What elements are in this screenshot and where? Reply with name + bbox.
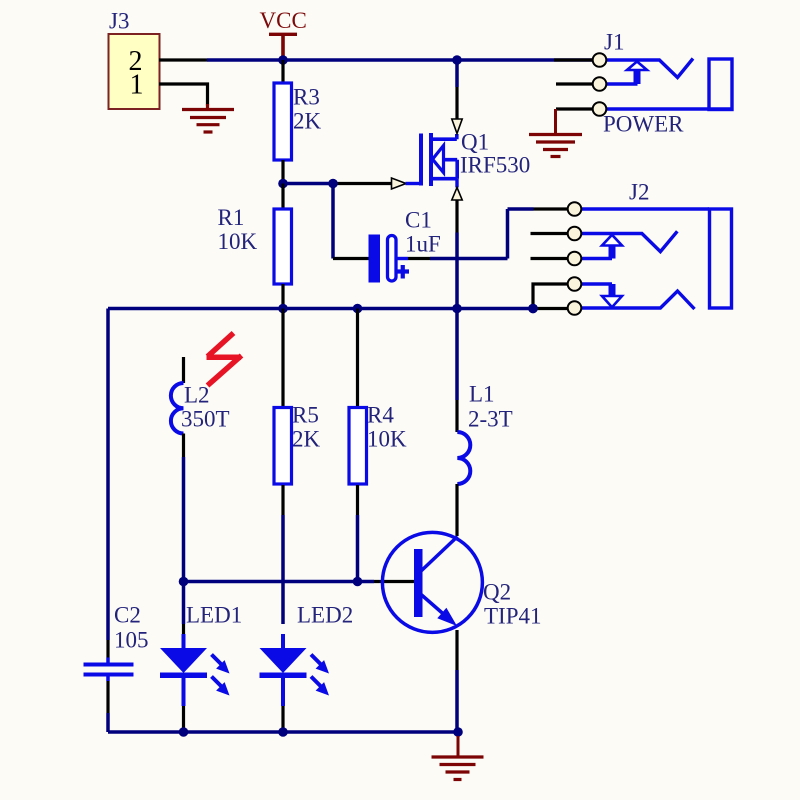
wire LED1 top lead <box>182 582 186 649</box>
wire R3 bottom lead <box>281 160 284 184</box>
label J3 designator <box>109 9 129 34</box>
junction mid rail at R4 <box>353 304 363 314</box>
pin J1 pin 3 <box>593 102 607 116</box>
label R5 value 2K <box>292 427 321 452</box>
svg-text:2K: 2K <box>292 427 321 452</box>
wire R1 top lead <box>281 184 284 210</box>
svg-text:POWER: POWER <box>603 112 684 137</box>
label L1 designator <box>469 382 495 407</box>
svg-text:2K: 2K <box>293 109 322 134</box>
wire base rail to Q2 <box>184 580 415 584</box>
wire Q1 drain vertical <box>455 60 459 119</box>
ground at J3 <box>182 104 234 132</box>
spark lightning symbol at L2 <box>207 333 242 386</box>
wire R5 top lead <box>281 309 284 408</box>
label C2 value 105 <box>114 628 149 653</box>
svg-text:105: 105 <box>114 628 149 653</box>
junction bottom rail at LED1 <box>179 727 189 737</box>
ground at bottom rail <box>432 736 484 780</box>
pin J2 pin 3 <box>568 252 582 266</box>
wire top rail VCC net <box>207 58 593 62</box>
svg-text:J1: J1 <box>604 30 624 55</box>
capacitor C1 polarized <box>369 235 410 283</box>
wire R4 bottom lead <box>356 485 359 582</box>
svg-text:1: 1 <box>130 70 144 101</box>
transistor Q1 MOSFET <box>421 133 457 188</box>
junction VCC rail at R3 top <box>278 55 288 65</box>
label R4 value 10K <box>367 427 407 452</box>
wire L1 to Q2 collector <box>455 484 458 536</box>
wire R5 bottom to LED2 <box>281 485 284 624</box>
label R1 designator <box>218 205 245 230</box>
label LED2 designator <box>297 603 353 628</box>
junction mid rail at R5 <box>278 304 288 314</box>
label J2 designator <box>629 180 649 205</box>
wire LED1 bottom lead <box>182 678 186 732</box>
svg-text:C2: C2 <box>114 603 141 628</box>
label LED1 designator <box>186 603 242 628</box>
svg-text:J3: J3 <box>109 9 129 34</box>
label L2 designator <box>184 383 210 408</box>
svg-text:VCC: VCC <box>260 8 307 33</box>
svg-text:R1: R1 <box>218 205 245 230</box>
resistor R5 <box>274 408 292 485</box>
wire J3 pin 1 to ground <box>159 84 208 106</box>
svg-text:L2: L2 <box>184 383 210 408</box>
wire C1 left lead <box>333 257 369 260</box>
label POWER net <box>603 112 684 137</box>
svg-text:R3: R3 <box>293 85 320 110</box>
diode LED2 <box>260 648 330 696</box>
connector J1 phone jack <box>554 59 732 110</box>
wire J3 pin 2 to VCC rail <box>159 58 207 61</box>
svg-text:TIP41: TIP41 <box>484 604 542 629</box>
pin arrow Q1 source <box>452 188 462 201</box>
resistor R3 <box>274 83 292 160</box>
svg-text:R4: R4 <box>367 403 394 428</box>
diode LED1 <box>160 648 230 696</box>
label VCC net <box>260 8 307 33</box>
junction J2 pin 4 corner on mid rail <box>528 304 538 314</box>
pin arrow Q1 drain <box>452 119 462 134</box>
pin J2 pin 2 <box>568 227 582 241</box>
label L1 value 2-3T <box>468 407 513 432</box>
svg-text:R5: R5 <box>292 403 319 428</box>
resistor R1 <box>274 209 292 284</box>
ground at J1 pin 3 <box>529 109 582 157</box>
pin J1 pin 1 <box>593 53 607 67</box>
wire Q2 emitter to ground rail <box>455 630 458 732</box>
label Q1 designator <box>461 130 489 155</box>
svg-text:C1: C1 <box>405 208 432 233</box>
pin number J3 pin 1 <box>130 70 144 101</box>
label R1 value 10K <box>218 229 258 254</box>
junction bottom rail at LED2 <box>278 727 288 737</box>
wire R3 top lead <box>281 60 284 83</box>
inductor L1 <box>457 309 470 485</box>
label C1 value 1uF <box>405 232 441 257</box>
svg-text:LED1: LED1 <box>186 603 242 628</box>
wire C1 to J2 pin 1 <box>396 209 534 259</box>
connector J3 <box>109 34 160 109</box>
svg-text:Q1: Q1 <box>461 130 489 155</box>
label C1 designator <box>405 208 432 233</box>
wire LED2 bottom lead <box>281 678 285 732</box>
label R3 value 2K <box>293 109 322 134</box>
wire R1 bottom lead <box>281 284 284 309</box>
svg-text:J2: J2 <box>629 180 649 205</box>
svg-text:10K: 10K <box>367 427 407 452</box>
pin J2 pin 1 <box>568 202 582 216</box>
label J1 designator <box>604 30 624 55</box>
pin J2 pin 4 <box>568 277 582 291</box>
resistor R4 <box>349 408 367 485</box>
svg-text:L1: L1 <box>469 382 495 407</box>
capacitor C2 <box>84 658 134 682</box>
wire mid rail net <box>108 307 533 311</box>
connector J2 stereo jack <box>531 209 732 309</box>
junction mid rail at L1 <box>452 304 462 314</box>
wire Q1 source vertical <box>455 200 458 309</box>
svg-text:IRF530: IRF530 <box>460 153 530 178</box>
label C2 designator <box>114 603 141 628</box>
wire R4 top lead <box>356 309 359 408</box>
junction VCC rail at Q1 drain branch <box>452 55 462 65</box>
wire gate blue stub to Q1 <box>406 182 420 185</box>
label R4 designator <box>367 403 394 428</box>
svg-text:350T: 350T <box>181 407 230 432</box>
junction R3 bottom on gate net <box>278 179 288 189</box>
junction mid rail at J2 pin 5 <box>528 304 538 314</box>
inductor L2 <box>171 357 184 434</box>
label R3 designator <box>293 85 320 110</box>
label Q2 designator <box>483 580 511 605</box>
junction bottom rail at Q2 emitter <box>453 727 463 737</box>
wire left rail through C2 <box>106 309 110 733</box>
wire L2 bottom lead <box>182 434 185 582</box>
wire bottom ground rail <box>108 730 458 734</box>
junction base rail at L2 branch <box>179 577 189 587</box>
transistor Q2 NPN <box>382 532 482 632</box>
junction gate net / C1 branch <box>328 179 338 189</box>
label L2 value 350T <box>181 407 230 432</box>
label Q2 value TIP41 <box>484 604 542 629</box>
pin arrow Q1 gate <box>392 178 407 189</box>
svg-text:10K: 10K <box>218 229 258 254</box>
pin J2 pin 5 <box>568 301 582 315</box>
pin number J3 pin 2 <box>129 46 143 77</box>
power VCC symbol <box>269 34 297 56</box>
label R5 designator <box>292 403 319 428</box>
svg-text:1uF: 1uF <box>405 232 441 257</box>
wire C1 branch vertical <box>331 184 335 259</box>
svg-text:2-3T: 2-3T <box>468 407 513 432</box>
wire LED2 top lead <box>281 634 285 648</box>
junction base rail at R4 branch <box>353 577 363 587</box>
wire gate net horizontal <box>283 182 391 186</box>
svg-text:Q2: Q2 <box>483 580 511 605</box>
pin J1 pin 2 <box>593 77 607 91</box>
label Q1 value IRF530 <box>460 153 530 178</box>
svg-text:LED2: LED2 <box>297 603 353 628</box>
